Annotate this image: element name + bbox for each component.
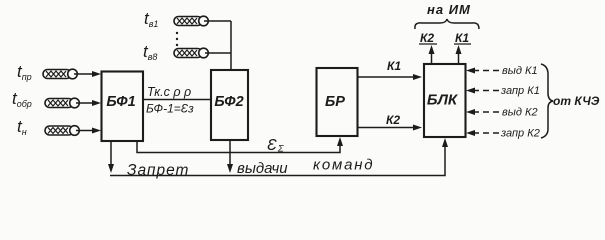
block БФ1 (102, 72, 144, 142)
block БФ2 (211, 70, 248, 140)
wire t_в1 to vertical bus (204, 20, 231, 22)
svg-text:Запрет: Запрет (127, 162, 189, 179)
svg-text:БФ2: БФ2 (214, 94, 243, 110)
wire t_пр into БФ1 (74, 71, 101, 77)
svg-text:К1: К1 (387, 59, 401, 73)
label К2 (top) (419, 31, 437, 45)
svg-text:К2: К2 (386, 113, 400, 127)
wire К1 БР to БЛК (358, 74, 423, 80)
svg-text:К2: К2 (420, 31, 434, 45)
svg-text:на ИМ: на ИМ (427, 2, 471, 17)
svg-text:выдачи: выдачи (237, 160, 288, 177)
wire t_обр into БФ1 (76, 100, 101, 106)
block БЛК (424, 64, 466, 137)
wire БФ1 to БФ2 (fraction bar) (143, 99, 211, 101)
wire Ɛ∑ from БФ1 to БР (137, 137, 343, 153)
sensor t_н (17, 117, 79, 137)
svg-text:Тк.с ρ ρ: Тк.с ρ ρ (147, 85, 191, 99)
sensor t_пр (17, 62, 77, 82)
svg-text:К1: К1 (455, 31, 469, 45)
svg-text:БР: БР (325, 94, 345, 110)
sensor t_в1 (144, 9, 208, 29)
wire выд К2 (dashed input) (466, 109, 500, 115)
wire запрет drop from БФ2 (227, 140, 233, 173)
block БР (317, 68, 358, 136)
svg-text:выд К2: выд К2 (502, 107, 538, 119)
svg-text:выд К1: выд К1 (502, 65, 538, 77)
sensor t_обр (12, 89, 79, 109)
wire К2 output up from БЛК (429, 45, 435, 64)
wire запрет bus to БЛК (110, 138, 448, 176)
wire t_н into БФ1 (76, 128, 101, 134)
wire запрет drop from БФ1 (108, 141, 114, 173)
brace от КЧЭ (541, 64, 553, 138)
svg-text:запр К2: запр К2 (500, 128, 540, 140)
svg-text:БФ-1=Ɛз: БФ-1=Ɛз (146, 102, 194, 116)
wire запр К2 (dashed input) (466, 130, 500, 136)
wire t_в8 to vertical bus (205, 52, 231, 54)
brace over К2 К1 (415, 19, 479, 29)
svg-text:БЛК: БЛК (427, 92, 459, 109)
wire К1 output up from БЛК (456, 45, 462, 64)
svg-text:запр К1: запр К1 (500, 85, 540, 97)
wire запр К1 (dashed input) (466, 88, 500, 94)
wire К2 БР to БЛК (358, 125, 423, 131)
ellipsis dots between t_в1 and t_в8 (176, 32, 178, 46)
svg-text:БФ1: БФ1 (106, 94, 135, 110)
wire vertical bus into top of БФ2 (230, 21, 232, 70)
label К1 (top) (454, 31, 471, 45)
svg-text:команд: команд (313, 157, 374, 174)
sensor t_в8 (143, 42, 208, 62)
svg-text:от КЧЭ: от КЧЭ (553, 94, 600, 108)
wire выд К1 (dashed input) (466, 68, 500, 74)
